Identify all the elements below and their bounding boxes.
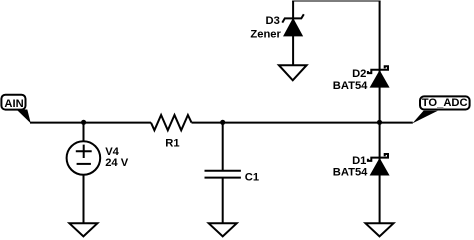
top rail (clipped grey wire) (292, 0, 381, 2)
svg-text:D1: D1 (352, 155, 366, 167)
svg-text:D2: D2 (352, 68, 366, 80)
ground (below D3) (279, 65, 307, 80)
voltage source V4 (67, 141, 101, 175)
wire: C1 branch vertical lower (222, 178, 224, 224)
node junction dot V4 (81, 120, 86, 125)
label D1 BAT54 (333, 155, 368, 178)
wire: V4 branch vertical (83, 123, 85, 224)
svg-text:BAT54: BAT54 (333, 80, 368, 92)
resistor R1 (151, 115, 192, 130)
capacitor C1 (205, 171, 241, 178)
schottky diode D2 (368, 66, 388, 87)
label V4 value (105, 146, 129, 169)
flag AIN (1, 95, 30, 124)
wire: D3 zener branch vertical (292, 1, 294, 66)
flag TO_ADC (412, 96, 469, 123)
svg-text:BAT54: BAT54 (333, 167, 368, 179)
svg-text:V4: V4 (105, 146, 119, 158)
wire: main horizontal net AIN to TO_ADC (30, 122, 151, 124)
node junction dot D branch (377, 120, 382, 125)
svg-text:24 V: 24 V (105, 157, 129, 169)
ground (below C1) (209, 223, 237, 236)
zener diode D3 (282, 14, 304, 35)
wire: C1 branch vertical upper (222, 123, 224, 171)
svg-text:R1: R1 (165, 137, 179, 149)
svg-text:Zener: Zener (250, 29, 281, 41)
schottky diode D1 (368, 154, 388, 175)
wire: after resistor to TO_ADC tail (192, 122, 413, 124)
svg-text:C1: C1 (245, 171, 259, 183)
wire: D2/D1 branch vertical (379, 1, 381, 224)
svg-text:D3: D3 (265, 15, 279, 27)
ground (below D1) (366, 223, 394, 236)
node junction dot C1 (220, 120, 225, 125)
ground (below V4) (69, 223, 97, 236)
label D2 BAT54 (333, 68, 368, 92)
svg-text:AIN: AIN (4, 98, 23, 110)
svg-text:TO_ADC: TO_ADC (422, 97, 468, 109)
label D3 Zener (250, 15, 281, 41)
